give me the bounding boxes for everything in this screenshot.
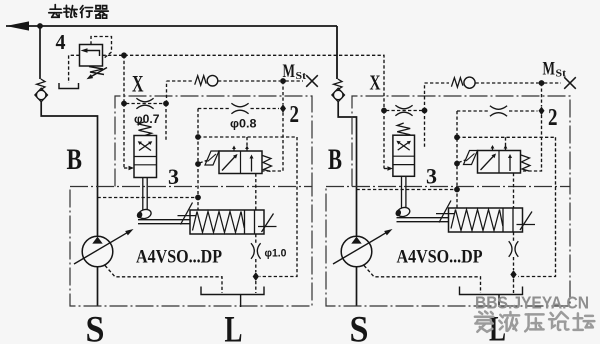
svg-text:BBS.JYEYA.CN: BBS.JYEYA.CN [475,293,589,313]
svg-text:φ0.8: φ0.8 [230,117,257,131]
svg-text:M: M [283,62,296,82]
svg-text:3: 3 [168,164,179,189]
svg-text:φ1.0: φ1.0 [265,248,287,260]
svg-text:St: St [296,70,307,82]
svg-text:S: S [350,310,369,344]
svg-text:M: M [543,60,556,80]
svg-text:3: 3 [426,164,437,189]
svg-text:St: St [556,68,567,80]
svg-text:L: L [225,310,243,344]
svg-text:A4VSO...DP: A4VSO...DP [397,248,483,268]
svg-text:B: B [67,143,83,176]
svg-text:S: S [86,310,105,344]
svg-text:2: 2 [548,105,558,131]
svg-text:X: X [370,71,381,95]
svg-text:4: 4 [56,30,66,54]
svg-text:B: B [328,143,342,176]
svg-text:X: X [132,72,144,97]
svg-text:A4VSO...DP: A4VSO...DP [136,248,222,268]
svg-text:2: 2 [290,102,300,128]
